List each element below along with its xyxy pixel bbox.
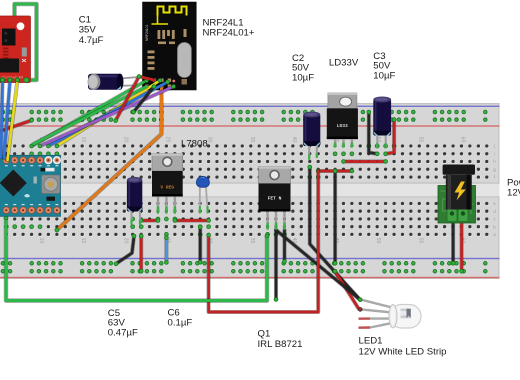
svg-text:a: a [493,232,496,237]
svg-text:d: d [493,209,496,214]
svg-text:NRF24L01: NRF24L01 [145,24,149,41]
svg-text:20: 20 [122,137,128,143]
svg-text:35: 35 [249,238,255,244]
svg-text:55: 55 [417,238,423,244]
svg-text:35: 35 [249,137,255,143]
svg-text:60: 60 [460,137,466,143]
svg-text:20: 20 [122,238,128,244]
svg-text:e: e [493,201,496,206]
svg-text:15: 15 [80,137,86,143]
svg-text:L7808: L7808 [181,139,208,150]
svg-text:0.47µF: 0.47µF [108,328,138,339]
svg-text:12V: 12V [507,188,520,199]
svg-text:j: j [493,144,495,149]
svg-text:40: 40 [291,137,297,143]
svg-text:10µF: 10µF [292,72,314,83]
svg-text:i: i [494,151,495,156]
svg-text:LED1: LED1 [359,336,383,347]
svg-text:0.1µF: 0.1µF [168,318,193,329]
svg-text:50: 50 [375,238,381,244]
svg-text:V REG: V REG [160,185,174,191]
svg-text:h: h [493,159,496,164]
svg-text:LD33: LD33 [337,123,348,129]
svg-text:LD33V: LD33V [329,58,359,69]
svg-text:12V White LED Strip: 12V White LED Strip [359,347,447,358]
svg-text:25: 25 [164,137,170,143]
svg-text:NRF24L01+: NRF24L01+ [203,28,255,39]
svg-text:FET N: FET N [268,196,282,202]
svg-text:10: 10 [38,238,44,244]
svg-text:IRL B8721: IRL B8721 [258,339,303,350]
svg-text:15: 15 [80,238,86,244]
svg-text:4.7µF: 4.7µF [79,35,104,46]
svg-text:55: 55 [417,137,423,143]
svg-text:b: b [493,224,496,229]
svg-text:Q1: Q1 [258,329,271,340]
svg-text:10µF: 10µF [373,71,395,82]
svg-text:g: g [493,167,496,172]
